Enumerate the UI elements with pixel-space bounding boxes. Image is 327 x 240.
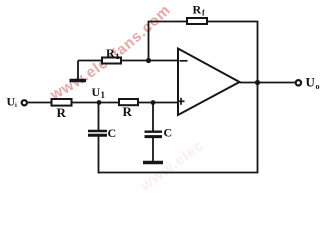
- svg-text:1: 1: [116, 52, 120, 61]
- svg-text:R: R: [193, 3, 202, 17]
- svg-text:www.elec: www.elec: [137, 137, 208, 195]
- svg-text:o: o: [316, 82, 320, 91]
- svg-text:f: f: [202, 9, 205, 18]
- svg-text:U: U: [92, 85, 101, 99]
- svg-text:C: C: [108, 126, 117, 140]
- svg-text:i: i: [15, 102, 17, 109]
- svg-text:R: R: [123, 104, 133, 119]
- svg-text:C: C: [164, 126, 173, 140]
- svg-text:R: R: [106, 46, 115, 60]
- svg-text:R: R: [57, 105, 67, 120]
- svg-text:1: 1: [101, 90, 106, 100]
- svg-text:U: U: [306, 75, 316, 90]
